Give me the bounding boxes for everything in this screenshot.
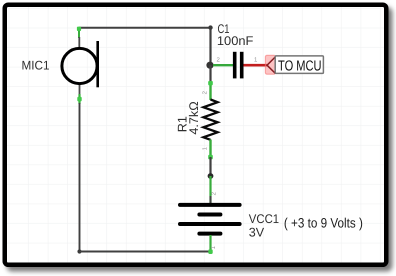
gray overlap of battery top pin [210, 196, 212, 204]
capacitor C1 plates [233, 52, 237, 79]
svg-text:4.7kΩ: 4.7kΩ [187, 101, 201, 134]
wire: top-right vertical down to junction [209, 28, 211, 65]
svg-text:VCC1: VCC1 [249, 212, 279, 226]
microphone MIC1 symbol: circle [62, 48, 97, 83]
svg-text:3V: 3V [249, 226, 265, 240]
TO MCU label box [275, 56, 323, 74]
wire: top horizontal (mic top to C1 net) [79, 27, 211, 29]
wire bendpoint dot bottom-left [77, 249, 81, 253]
net connector symbol (pink square with triangle) [265, 55, 275, 74]
battery VCC1 plates [180, 203, 240, 207]
wire bendpoint dot top-right [208, 25, 212, 29]
mic bottom pin gray segment [79, 85, 81, 95]
wire: resistor to battery [209, 157, 211, 176]
capacitor C1 pin 2 wire (green) [213, 64, 233, 66]
resistor R1 bottom pin (green) [209, 140, 211, 158]
resistor R1 top pin (green) [209, 82, 211, 100]
svg-text:100nF: 100nF [217, 34, 254, 48]
mic top pin (green) [78, 29, 80, 38]
battery VCC1 pin 1 (green, bottom) [209, 235, 211, 254]
junction dot at node A (C1 / R1 / mic net) [206, 62, 213, 69]
battery VCC1 pin 2 (green, top) [209, 176, 211, 203]
wire bendpoint dot [208, 173, 214, 179]
wire: bottom horizontal [80, 251, 211, 253]
mic bottom pin (green) [78, 94, 80, 104]
svg-text:MIC1: MIC1 [22, 59, 50, 73]
wire: junction to resistor [209, 65, 211, 82]
capacitor C1 pin 1 wire (red) [244, 64, 268, 67]
wire: mic top pin gray segment [78, 37, 80, 47]
resistor R1 zigzag [203, 100, 217, 140]
svg-text:( +3 to 9 Volts ): ( +3 to 9 Volts ) [284, 216, 363, 231]
wire: left vertical long [79, 103, 81, 252]
microphone MIC1 symbol: right bar [96, 41, 99, 87]
svg-text:TO MCU: TO MCU [278, 58, 322, 74]
